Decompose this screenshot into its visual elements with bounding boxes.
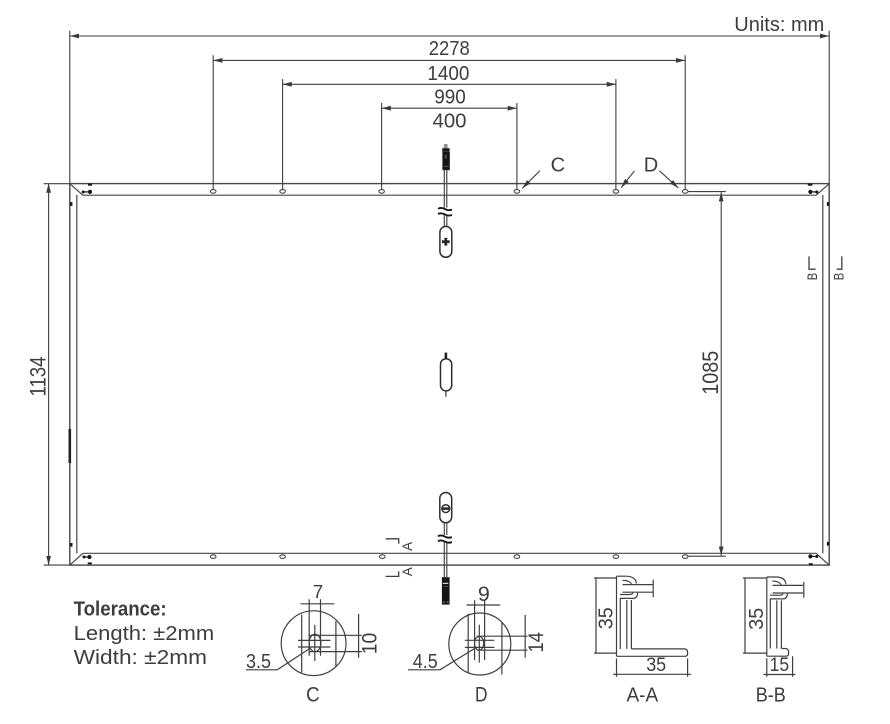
svg-text:B-B: B-B (756, 685, 786, 707)
svg-text:B: B (805, 273, 821, 281)
svg-text:Units: mm: Units: mm (734, 14, 824, 36)
svg-text:35: 35 (646, 654, 666, 676)
svg-text:Tolerance:: Tolerance: (74, 599, 167, 621)
svg-text:A: A (400, 541, 416, 551)
svg-text:990: 990 (434, 86, 466, 108)
svg-text:C: C (551, 154, 565, 176)
svg-text:35: 35 (746, 608, 768, 630)
svg-text:1134: 1134 (26, 357, 51, 397)
svg-text:2278: 2278 (429, 38, 470, 60)
svg-text:10: 10 (358, 633, 381, 655)
svg-text:Width: ±2mm: Width: ±2mm (74, 647, 207, 669)
svg-text:1400: 1400 (427, 63, 469, 85)
svg-text:400: 400 (433, 110, 467, 132)
svg-text:9: 9 (478, 582, 490, 606)
svg-text:C: C (306, 682, 320, 706)
svg-text:1085: 1085 (698, 351, 723, 395)
svg-text:D: D (644, 154, 658, 176)
svg-text:3.5: 3.5 (246, 651, 271, 673)
svg-text:A: A (400, 567, 416, 577)
svg-text:14: 14 (524, 632, 548, 652)
svg-text:15: 15 (770, 654, 790, 676)
svg-text:D: D (475, 682, 488, 706)
svg-text:35: 35 (596, 607, 618, 629)
svg-text:Length: ±2mm: Length: ±2mm (74, 623, 215, 645)
svg-text:A-A: A-A (626, 685, 658, 707)
svg-text:7: 7 (313, 581, 323, 602)
svg-text:B: B (831, 273, 847, 281)
svg-text:4.5: 4.5 (413, 651, 438, 673)
